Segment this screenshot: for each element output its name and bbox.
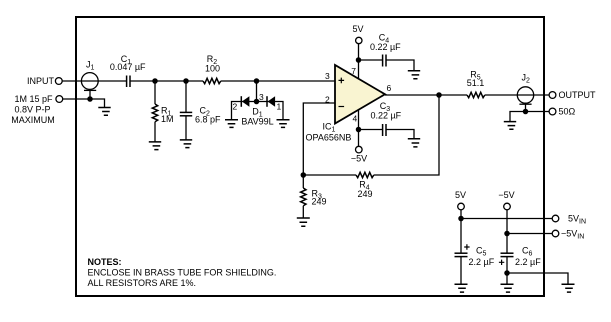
wire: ground tap — [90, 99, 105, 108]
svg-text:OPA656NB: OPA656NB — [306, 133, 352, 143]
notes text — [88, 257, 277, 288]
junction: output node — [436, 92, 442, 98]
junction: J1 ground node — [87, 96, 93, 102]
svg-text:ENCLOSE IN BRASS TUBE FOR SHIE: ENCLOSE IN BRASS TUBE FOR SHIELDING. — [88, 267, 277, 277]
resistor R1 — [152, 81, 157, 142]
wire: pin 2 to feedback node — [303, 103, 335, 175]
wire: J1 to C1 — [98, 80, 127, 82]
svg-text:3: 3 — [259, 92, 264, 102]
ground (C3) — [408, 139, 420, 147]
wire: J2 shield down — [525, 104, 527, 111]
wire: 5V to 5VIN terminal — [461, 218, 552, 220]
junction: pin 4 bypass node — [356, 127, 362, 133]
svg-text:100: 100 — [205, 64, 220, 74]
label 1M 15 pF / 0.8V P-P / MAXIMUM — [11, 94, 55, 125]
ground (C6) — [501, 284, 514, 292]
junction: J2 shield node — [523, 109, 529, 115]
label R3 249 — [312, 188, 327, 206]
junction: C6 ground node — [504, 270, 510, 276]
wire: C6 node to external ground — [507, 273, 568, 284]
svg-text:249: 249 — [312, 197, 327, 207]
ground (J1) — [98, 108, 110, 116]
label C3 0.22 µF — [370, 101, 401, 121]
terminal 5VIN — [552, 215, 559, 222]
svg-text:1: 1 — [277, 102, 282, 112]
diode D1a (pin2 side) — [241, 96, 249, 107]
svg-text:7: 7 — [351, 66, 356, 76]
junction: feedback node — [301, 172, 307, 178]
label D1 BAV99L — [241, 107, 273, 127]
wire: shield node to 50 ohm terminal — [526, 111, 550, 113]
wire: node to C4 — [359, 59, 383, 61]
ground (D1 pin1) — [277, 120, 290, 128]
wire: D1 left lead — [232, 102, 250, 120]
junction: pin 7 bypass node — [356, 57, 362, 63]
svg-text:INPUT: INPUT — [27, 76, 55, 86]
label C2 6.8 pF — [195, 105, 221, 124]
wire: pin 7 to 5V — [358, 44, 360, 79]
wire: C1 to R2 — [130, 80, 203, 82]
svg-text:BAV99L: BAV99L — [241, 116, 273, 126]
svg-text:3: 3 — [325, 71, 330, 81]
junction: R1 tap node — [152, 78, 158, 84]
svg-text:1M: 1M — [161, 114, 174, 124]
input terminal (shield reference) — [56, 96, 63, 103]
wire: node to C3 — [359, 129, 383, 131]
op-amp U1 OPA656NB — [335, 65, 385, 124]
svg-text:0.22 µF: 0.22 µF — [370, 42, 401, 52]
label R2 100 — [205, 54, 220, 74]
svg-text:MAXIMUM: MAXIMUM — [11, 115, 55, 125]
svg-text:1M 15 pF: 1M 15 pF — [14, 94, 53, 104]
label IC1 OPA656NB — [306, 121, 352, 142]
svg-text:OUTPUT: OUTPUT — [559, 90, 597, 100]
wire: -5V rail down — [506, 210, 508, 253]
svg-text:NOTES:: NOTES: — [88, 257, 122, 267]
wire: INPUT terminal to J1 — [62, 80, 98, 82]
svg-text:4: 4 — [353, 113, 358, 123]
svg-text:−5V: −5V — [498, 190, 514, 200]
plus sign C5 — [464, 244, 469, 249]
ground (C5) — [455, 284, 468, 292]
plus sign C6 — [499, 260, 504, 265]
wire: J2 to OUTPUT terminal — [533, 94, 550, 96]
wire: -5V to -5VIN terminal — [507, 233, 552, 235]
junction: D1 pin 3 node — [254, 99, 260, 105]
svg-text:2.2 µF: 2.2 µF — [469, 257, 495, 267]
label C5 2.2 µF — [469, 245, 495, 266]
svg-text:249: 249 — [357, 189, 372, 199]
resistor R3 — [301, 175, 306, 218]
svg-text:51.1: 51.1 — [467, 78, 485, 88]
capacitor C3 — [383, 124, 386, 136]
svg-text:0.8V P-P: 0.8V P-P — [14, 105, 50, 115]
svg-text:2: 2 — [233, 102, 238, 112]
svg-text:−5V: −5V — [351, 153, 367, 163]
junction: 5V tap — [458, 216, 464, 222]
label C1 0.047 µF — [110, 54, 146, 72]
diode D1b (pin1 side) — [267, 96, 275, 107]
svg-text:6.8 pF: 6.8 pF — [195, 115, 221, 125]
capacitor C1 — [127, 76, 130, 88]
connector J2 — [517, 87, 533, 104]
ground (C2) — [180, 140, 192, 148]
label R1 1M — [161, 105, 174, 124]
input terminal INPUT — [55, 78, 62, 85]
svg-text:6: 6 — [387, 83, 392, 93]
capacitor C2 — [180, 81, 192, 140]
capacitor C4 — [383, 55, 386, 67]
terminal -5VIN — [552, 230, 559, 237]
terminal 50 ohm — [549, 108, 556, 115]
svg-text:5V: 5V — [455, 190, 466, 200]
capacitor C6 — [501, 253, 514, 273]
ground (R1) — [149, 142, 161, 150]
wire: pin 6 to R5 — [385, 94, 467, 96]
wire: R5 to J2 — [485, 94, 534, 96]
label C4 0.22 µF — [370, 32, 401, 52]
wire: R2 to op-amp pin 3 — [221, 80, 335, 82]
power terminal 5V (supply) — [458, 203, 465, 210]
power terminal 5V (op-amp) — [356, 37, 362, 43]
junction: -5V tap — [504, 231, 510, 237]
wire: shield terminal to J1 ground node — [63, 98, 90, 100]
op-amp inverting - symbol — [339, 106, 345, 108]
ground (J2) — [504, 122, 516, 130]
svg-text:0.047 µF: 0.047 µF — [110, 62, 146, 72]
label R4 249 — [357, 180, 372, 199]
junction: D1 tap node — [254, 78, 260, 84]
svg-text:50Ω: 50Ω — [559, 107, 576, 117]
power terminal -5V (supply) — [504, 203, 511, 210]
wire: J1 shield down — [89, 90, 91, 99]
svg-text:ALL RESISTORS ARE 1%.: ALL RESISTORS ARE 1%. — [88, 278, 197, 288]
resistor R4 — [356, 172, 374, 177]
wire: pin 4 to -5V — [358, 110, 360, 146]
label C6 2.2 µF — [515, 245, 541, 266]
svg-text:2.2 µF: 2.2 µF — [515, 257, 541, 267]
wire: C3 to ground — [386, 130, 414, 139]
resistor R5 — [467, 92, 485, 97]
resistor R2 — [203, 78, 221, 83]
op-amp noninverting + symbol — [339, 78, 345, 84]
connector J1 — [81, 73, 98, 91]
wire: R4 to output node — [374, 95, 439, 175]
ground (external) — [562, 284, 575, 292]
wire: C4 to ground — [386, 60, 414, 71]
svg-text:0.22 µF: 0.22 µF — [370, 111, 401, 121]
wire: shield node to ground — [510, 112, 526, 122]
junction: C2 tap node — [183, 78, 189, 84]
wire: D1 center segment — [249, 101, 267, 103]
wire: C6 node to ground — [506, 273, 508, 284]
capacitor C5 — [455, 253, 468, 284]
power terminal -5V (op-amp) — [356, 146, 363, 153]
wire: node down to D1 common — [256, 81, 258, 102]
wire: D1 right lead — [267, 102, 283, 120]
svg-text:5V: 5V — [352, 24, 363, 34]
output terminal OUTPUT — [549, 92, 556, 99]
ground (R3) — [297, 218, 310, 226]
wire: feedback node to R4 — [303, 174, 356, 176]
wire: 5V rail down — [460, 210, 462, 253]
ground (C4) — [408, 71, 420, 79]
label R5 51.1 — [467, 69, 485, 88]
ground (D1 pin2) — [225, 120, 238, 128]
